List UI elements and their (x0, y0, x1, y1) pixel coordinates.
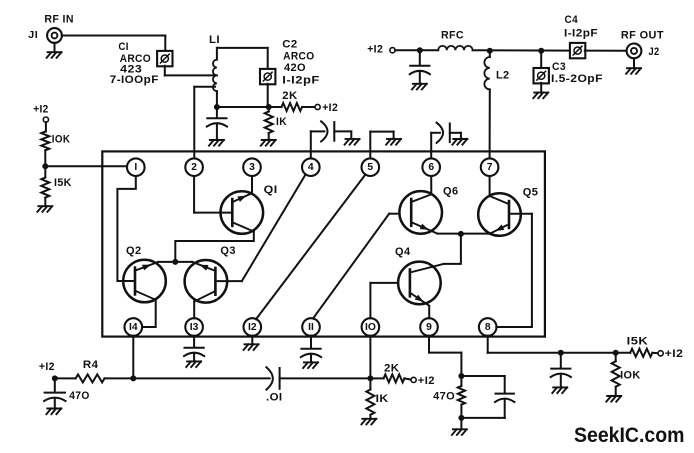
svg-text:IOK: IOK (620, 370, 641, 382)
svg-text:3: 3 (249, 162, 255, 173)
svg-text:47O: 47O (433, 390, 455, 402)
svg-text:I2: I2 (248, 322, 257, 333)
svg-text:2K: 2K (282, 90, 297, 102)
svg-text:6: 6 (428, 162, 434, 173)
svg-text:SeekIC.com: SeekIC.com (574, 424, 685, 447)
svg-text:8: 8 (485, 322, 491, 333)
svg-text:C2: C2 (282, 38, 297, 50)
svg-text:RF OUT: RF OUT (621, 30, 664, 42)
svg-text:LI: LI (209, 34, 220, 46)
svg-text:I-I2pF: I-I2pF (564, 27, 598, 39)
svg-text:I.5-2OpF: I.5-2OpF (551, 73, 603, 85)
svg-text:I: I (134, 162, 137, 173)
svg-text:IK: IK (376, 393, 389, 405)
svg-text:RFC: RFC (441, 30, 464, 42)
svg-text:+I2: +I2 (33, 104, 49, 116)
svg-text:II: II (308, 322, 314, 333)
svg-text:C3: C3 (552, 61, 566, 73)
svg-text:IK: IK (276, 116, 287, 128)
svg-text:I5K: I5K (54, 177, 72, 189)
svg-text:C4: C4 (565, 14, 579, 26)
svg-text:Q5: Q5 (523, 187, 539, 199)
svg-text:I5K: I5K (627, 336, 649, 348)
svg-text:+I2: +I2 (39, 361, 55, 373)
svg-text:CI: CI (118, 41, 128, 53)
svg-text:47O: 47O (69, 390, 90, 402)
svg-text:5: 5 (367, 162, 373, 173)
svg-text:JI: JI (28, 29, 38, 41)
svg-text:R4: R4 (83, 359, 99, 371)
svg-text:QI: QI (264, 184, 278, 196)
svg-text:.OI: .OI (266, 392, 283, 404)
svg-text:7-IOOpF: 7-IOOpF (110, 74, 159, 86)
svg-text:+I2: +I2 (367, 43, 383, 55)
svg-text:L2: L2 (496, 69, 510, 81)
svg-text:7: 7 (487, 162, 493, 173)
svg-text:+I2: +I2 (418, 375, 435, 387)
svg-text:I4: I4 (129, 322, 138, 333)
svg-text:2K: 2K (384, 363, 400, 375)
svg-text:Q6: Q6 (443, 186, 459, 198)
svg-text:+I2: +I2 (665, 348, 684, 360)
svg-text:J2: J2 (649, 46, 660, 58)
svg-text:Q3: Q3 (220, 245, 236, 257)
svg-text:+I2: +I2 (322, 102, 338, 114)
svg-text:9: 9 (426, 322, 432, 333)
svg-text:42O: 42O (284, 62, 306, 74)
svg-text:4: 4 (308, 162, 314, 173)
svg-text:RF IN: RF IN (44, 13, 74, 25)
svg-text:Q2: Q2 (126, 245, 142, 257)
svg-text:IO: IO (365, 322, 376, 333)
svg-text:IOK: IOK (52, 133, 71, 145)
svg-text:I3: I3 (190, 322, 199, 333)
svg-text:I-I2pF: I-I2pF (282, 75, 320, 87)
svg-text:ARCO: ARCO (283, 50, 315, 62)
svg-text:Q4: Q4 (395, 246, 411, 258)
svg-text:2: 2 (191, 162, 197, 173)
